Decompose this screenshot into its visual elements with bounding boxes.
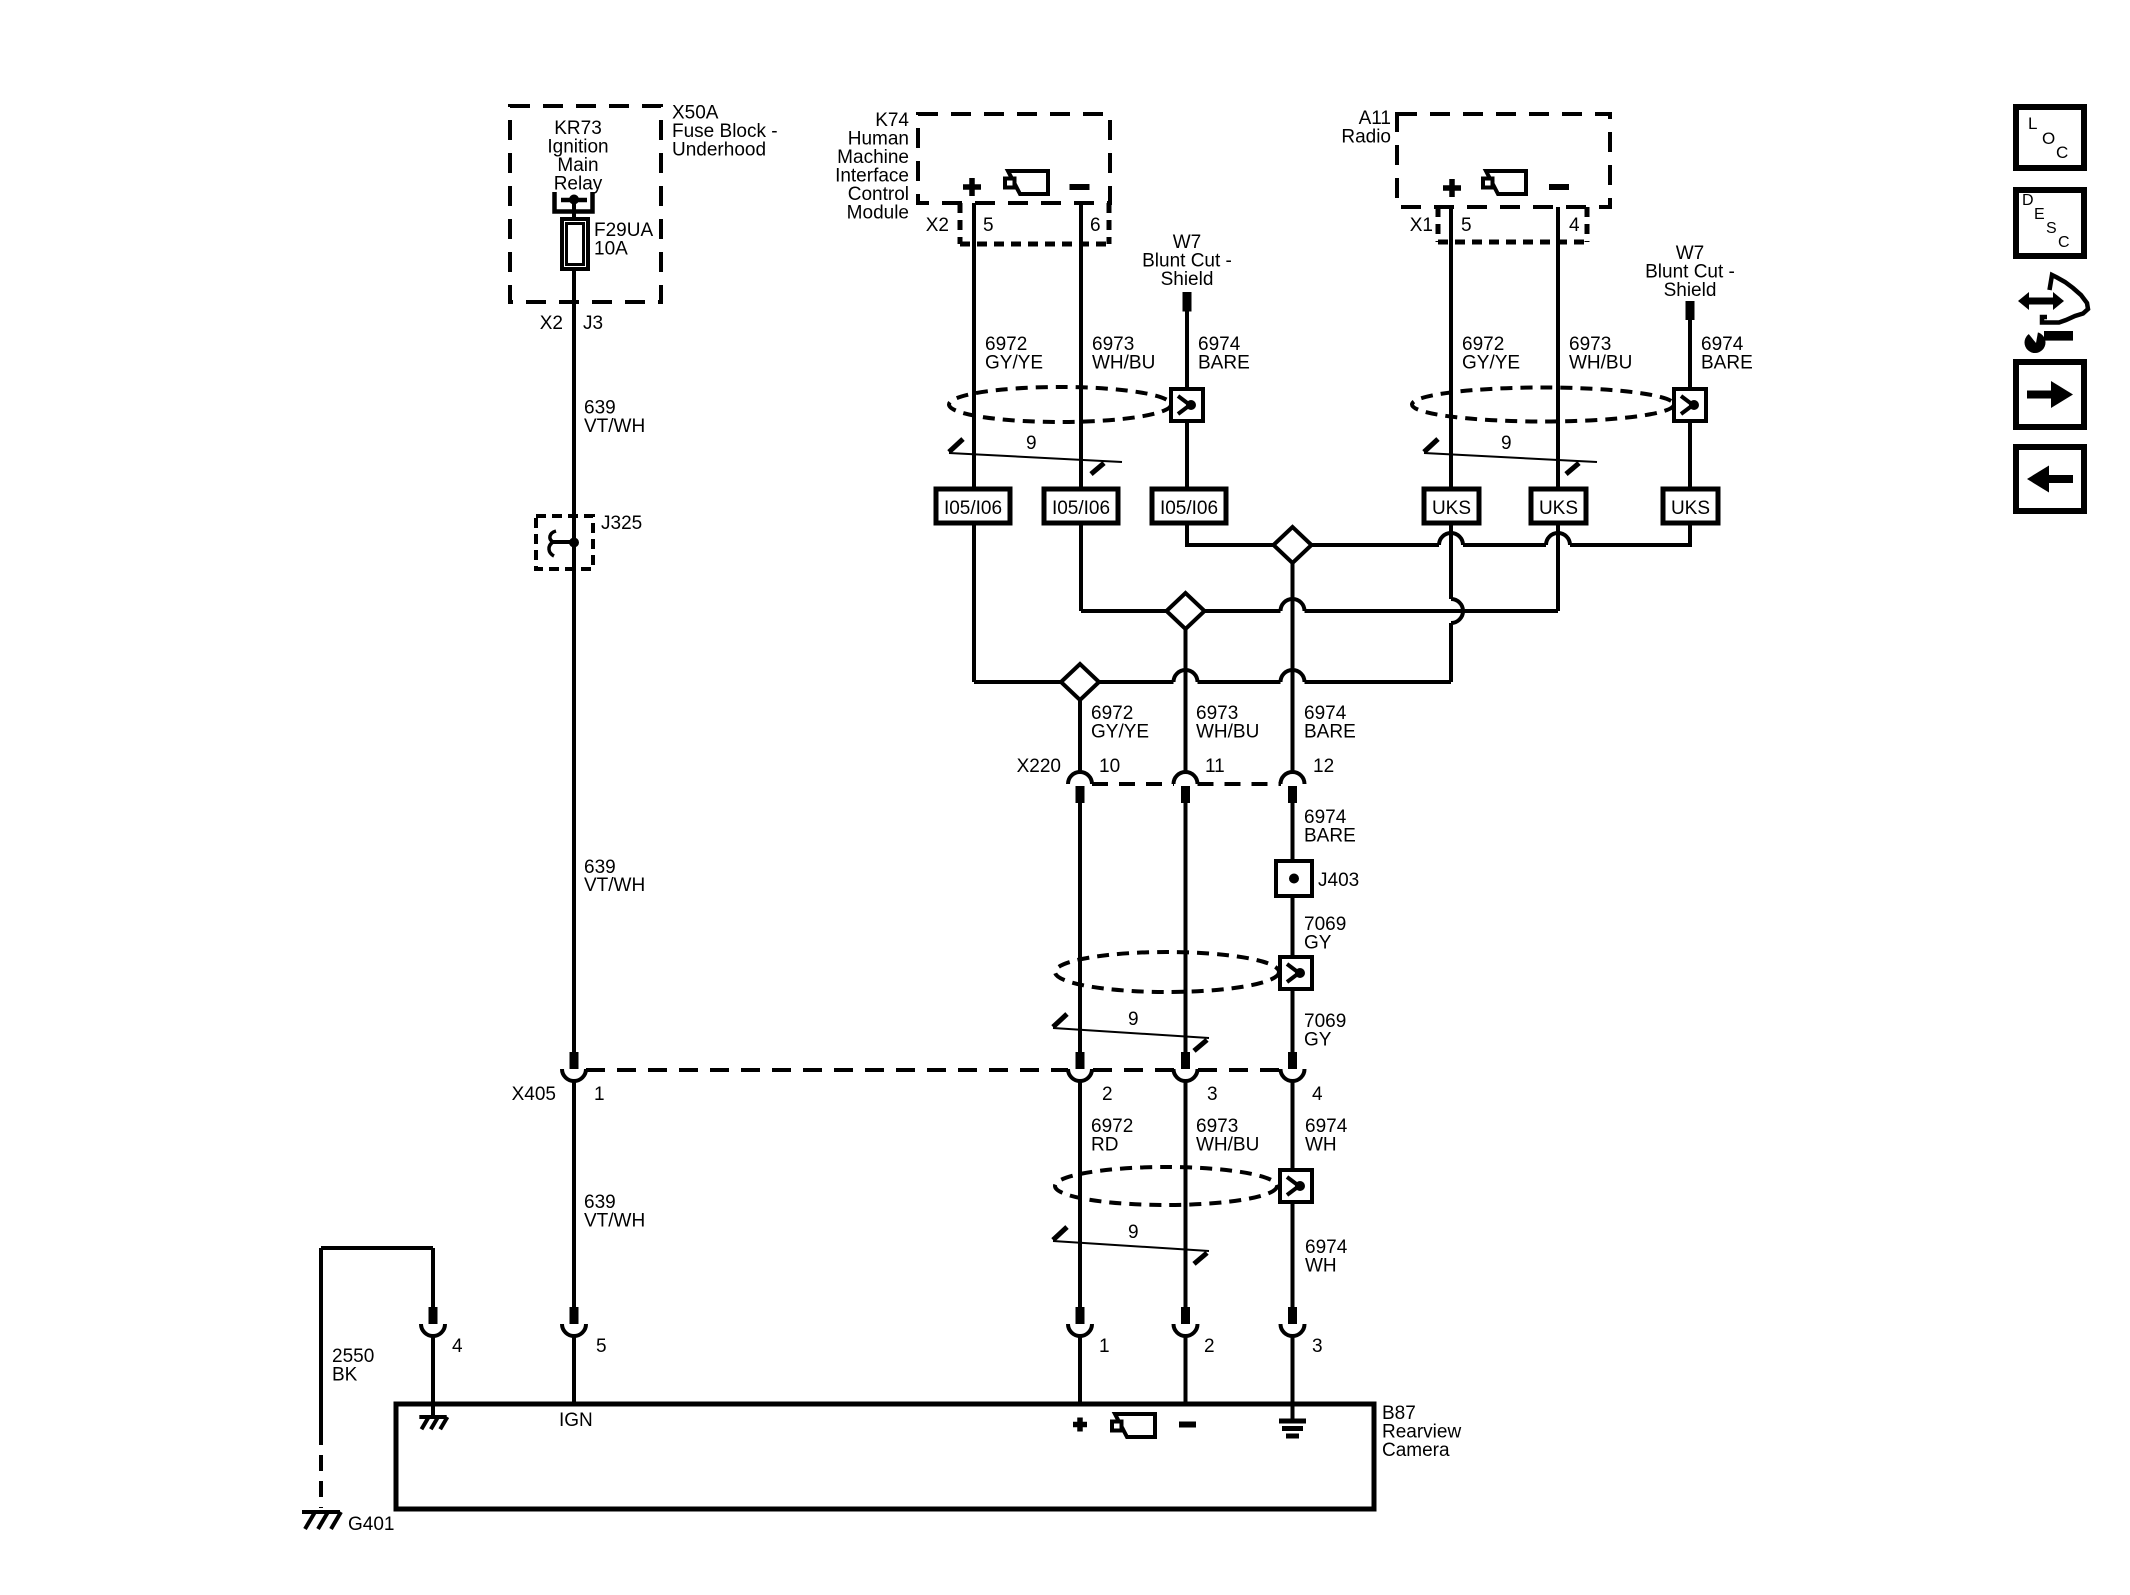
- svg-text:X1: X1: [1410, 215, 1433, 236]
- svg-text:GY: GY: [1304, 933, 1332, 954]
- svg-text:9: 9: [1501, 433, 1512, 454]
- svg-text:2: 2: [1204, 1336, 1215, 1357]
- svg-text:L: L: [2028, 114, 2037, 133]
- svg-text:4: 4: [1312, 1084, 1323, 1105]
- svg-text:2: 2: [1102, 1084, 1113, 1105]
- svg-text:Module: Module: [847, 203, 909, 224]
- svg-text:G401: G401: [348, 1514, 394, 1535]
- svg-text:4: 4: [452, 1336, 463, 1357]
- svg-text:VT/WH: VT/WH: [584, 1211, 645, 1232]
- svg-text:1: 1: [594, 1084, 605, 1105]
- svg-text:Underhood: Underhood: [672, 140, 766, 161]
- svg-text:9: 9: [1026, 433, 1037, 454]
- svg-text:5: 5: [1461, 215, 1472, 236]
- svg-text:O: O: [2042, 129, 2055, 148]
- svg-text:J325: J325: [601, 513, 642, 534]
- svg-text:X2: X2: [926, 215, 949, 236]
- svg-text:Camera: Camera: [1382, 1440, 1450, 1461]
- svg-text:X2: X2: [540, 313, 563, 334]
- svg-text:WH: WH: [1305, 1135, 1337, 1156]
- svg-text:UKS: UKS: [1671, 498, 1710, 519]
- svg-text:WH: WH: [1305, 1256, 1337, 1277]
- svg-text:Relay: Relay: [554, 174, 603, 195]
- svg-text:UKS: UKS: [1539, 498, 1578, 519]
- svg-text:Shield: Shield: [1664, 280, 1717, 301]
- svg-text:WH/BU: WH/BU: [1569, 353, 1632, 374]
- svg-text:D: D: [2022, 192, 2034, 209]
- svg-text:J403: J403: [1318, 870, 1359, 891]
- svg-text:C: C: [2056, 143, 2068, 162]
- svg-text:6: 6: [1090, 215, 1101, 236]
- svg-text:1: 1: [1099, 1336, 1110, 1357]
- svg-text:X405: X405: [512, 1084, 556, 1105]
- svg-text:BARE: BARE: [1198, 353, 1250, 374]
- svg-text:4: 4: [1569, 215, 1580, 236]
- svg-text:X220: X220: [1017, 756, 1061, 777]
- svg-text:WH/BU: WH/BU: [1196, 1135, 1259, 1156]
- svg-text:3: 3: [1207, 1084, 1218, 1105]
- svg-text:9: 9: [1128, 1009, 1139, 1030]
- svg-text:BK: BK: [332, 1365, 358, 1386]
- svg-text:Shield: Shield: [1161, 269, 1214, 290]
- svg-text:I05/I06: I05/I06: [1052, 498, 1110, 519]
- svg-text:RD: RD: [1091, 1135, 1118, 1156]
- svg-text:5: 5: [596, 1336, 607, 1357]
- svg-text:11: 11: [1205, 756, 1225, 777]
- svg-text:12: 12: [1313, 756, 1334, 777]
- svg-text:GY/YE: GY/YE: [985, 353, 1043, 374]
- svg-text:3: 3: [1312, 1336, 1323, 1357]
- svg-text:GY/YE: GY/YE: [1462, 353, 1520, 374]
- svg-text:BARE: BARE: [1701, 353, 1753, 374]
- svg-text:I05/I06: I05/I06: [944, 498, 1002, 519]
- svg-text:WH/BU: WH/BU: [1196, 722, 1259, 743]
- svg-text:BARE: BARE: [1304, 722, 1356, 743]
- svg-text:VT/WH: VT/WH: [584, 416, 645, 437]
- svg-text:I05/I06: I05/I06: [1160, 498, 1218, 519]
- svg-text:S: S: [2046, 220, 2057, 237]
- svg-text:10A: 10A: [594, 239, 628, 260]
- svg-text:5: 5: [983, 215, 994, 236]
- svg-text:IGN: IGN: [559, 1410, 593, 1431]
- svg-text:GY/YE: GY/YE: [1091, 722, 1149, 743]
- svg-text:WH/BU: WH/BU: [1092, 353, 1155, 374]
- svg-text:E: E: [2034, 206, 2045, 223]
- svg-text:J3: J3: [583, 313, 603, 334]
- svg-text:10: 10: [1099, 756, 1120, 777]
- svg-text:GY: GY: [1304, 1030, 1332, 1051]
- svg-text:BARE: BARE: [1304, 826, 1356, 847]
- svg-text:UKS: UKS: [1432, 498, 1471, 519]
- svg-text:VT/WH: VT/WH: [584, 875, 645, 896]
- svg-text:9: 9: [1128, 1222, 1139, 1243]
- svg-text:C: C: [2058, 234, 2070, 251]
- svg-text:Radio: Radio: [1341, 127, 1391, 148]
